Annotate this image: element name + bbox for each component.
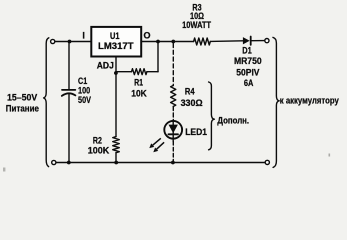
svg-text:50PIV: 50PIV — [236, 68, 259, 78]
wire U1 output to R3 — [141, 41, 194, 43]
svg-text:R1: R1 — [134, 78, 143, 88]
svg-text:10WATT: 10WATT — [182, 20, 211, 30]
svg-text:MR750: MR750 — [234, 56, 262, 66]
node R2 bottom — [114, 161, 118, 165]
svg-text:D1: D1 — [242, 46, 252, 56]
output terminal top — [265, 39, 269, 43]
svg-text:50V: 50V — [78, 95, 91, 105]
regulator U1 LM317T — [91, 27, 141, 57]
svg-text:к аккумулятору: к аккумулятору — [280, 96, 340, 107]
output terminal bottom — [265, 160, 269, 164]
svg-text:R2: R2 — [93, 135, 102, 145]
node output dashed branch — [171, 40, 175, 44]
svg-text:10K: 10K — [131, 88, 147, 98]
svg-text:R4: R4 — [185, 87, 195, 97]
svg-text:Питание: Питание — [6, 103, 39, 113]
svg-text:15–50V: 15–50V — [7, 93, 37, 103]
dashed wire R4 to LED — [172, 107, 174, 121]
input terminal top — [51, 39, 55, 43]
node ADJ — [114, 71, 118, 75]
svg-text:ADJ: ADJ — [97, 61, 114, 71]
svg-text:LED1: LED1 — [185, 127, 207, 137]
input terminal bottom — [52, 160, 56, 164]
node output R1 branch — [156, 40, 160, 44]
scan speckle bottom left — [3, 168, 5, 172]
svg-text:I: I — [82, 31, 85, 41]
capacitor C1 — [62, 42, 91, 163]
right brace to battery — [273, 37, 279, 167]
resistor R3 — [182, 2, 211, 45]
wire R3 to D1 — [210, 40, 243, 43]
node C1 bottom — [67, 161, 71, 165]
svg-text:Дополн.: Дополн. — [217, 116, 249, 127]
left input brace — [44, 38, 49, 167]
LED emission arrows — [149, 138, 164, 152]
wire D1 to output terminal — [251, 40, 265, 42]
wire R1 to output node — [157, 42, 159, 72]
svg-text:O: O — [143, 31, 150, 41]
wire input to U1 — [55, 41, 91, 43]
node LED bottom — [171, 161, 175, 165]
wire bottom rail — [56, 162, 265, 164]
dashed wire LED to bottom rail — [172, 142, 174, 163]
svg-text:100K: 100K — [88, 146, 110, 156]
svg-text:6A: 6A — [244, 78, 254, 88]
diode D1 — [234, 37, 262, 89]
svg-text:U1: U1 — [110, 31, 120, 41]
resistor R2 — [88, 73, 120, 163]
optional-section brace — [209, 82, 215, 150]
svg-text:330Ω: 330Ω — [181, 98, 203, 108]
resistor R1 — [116, 69, 158, 99]
node C1 top — [68, 40, 72, 44]
wire ADJ pin — [115, 57, 117, 73]
resistor R4 — [171, 86, 203, 109]
LED LED1 — [164, 121, 207, 142]
dashed wire output to R4 — [172, 44, 174, 86]
svg-text:LM317T: LM317T — [98, 41, 134, 51]
scan speckle right — [329, 154, 331, 157]
